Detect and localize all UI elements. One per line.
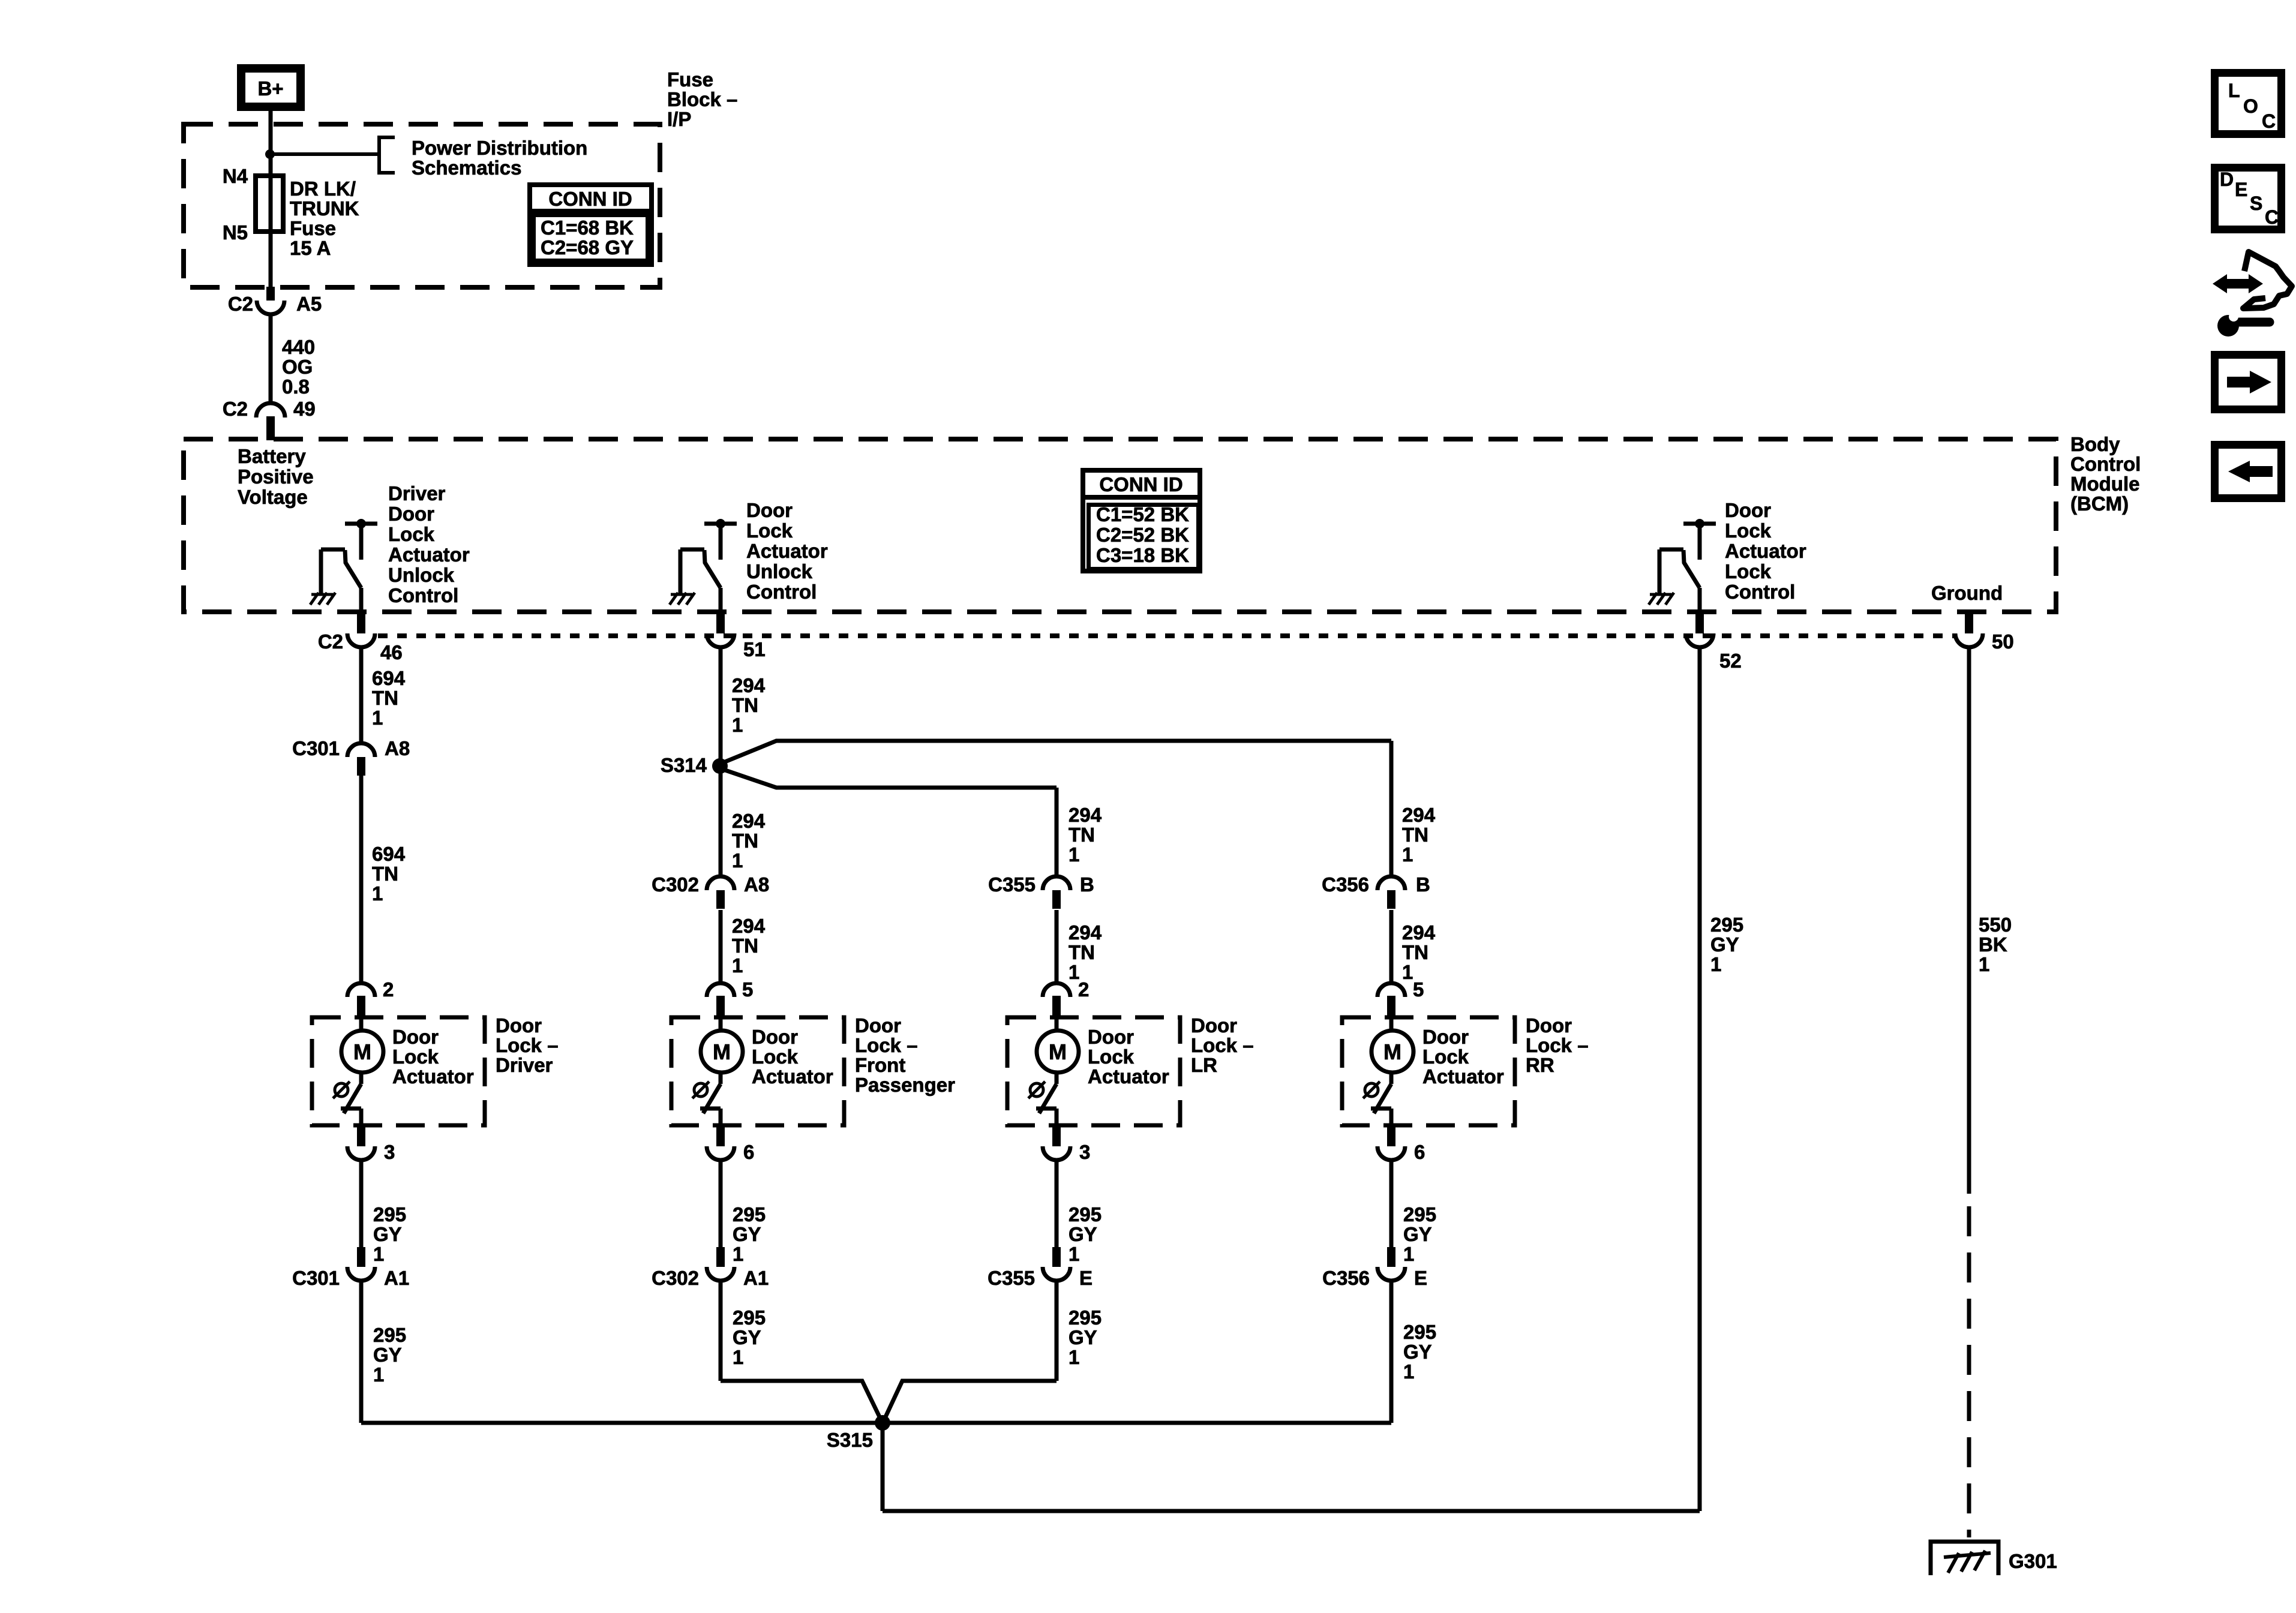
svg-text:(BCM): (BCM) [2070, 492, 2129, 515]
svg-text:Door: Door [746, 499, 793, 521]
svg-text:C302: C302 [652, 1267, 699, 1289]
svg-text:Lock: Lock [388, 523, 435, 545]
svg-text:Door: Door [496, 1014, 542, 1037]
svg-text:Unlock: Unlock [388, 564, 455, 586]
svg-text:GY: GY [1069, 1326, 1097, 1348]
svg-text:295: 295 [733, 1306, 766, 1329]
svg-text:1: 1 [373, 1243, 384, 1265]
svg-text:Lock: Lock [1422, 1046, 1469, 1068]
svg-text:Fuse: Fuse [290, 217, 336, 239]
svg-text:TN: TN [732, 935, 758, 957]
svg-text:S: S [2250, 193, 2262, 214]
svg-text:C1=52 BK: C1=52 BK [1096, 503, 1189, 525]
svg-text:295: 295 [1403, 1321, 1436, 1343]
svg-text:M: M [1049, 1040, 1067, 1064]
svg-text:Actuator: Actuator [1088, 1065, 1169, 1088]
svg-text:Lock: Lock [752, 1046, 799, 1068]
svg-text:Door: Door [388, 503, 434, 525]
svg-text:GY: GY [1069, 1223, 1097, 1245]
svg-text:Front: Front [855, 1054, 905, 1076]
svg-text:Actuator: Actuator [388, 543, 470, 566]
svg-text:Passenger: Passenger [855, 1074, 955, 1096]
svg-text:C2: C2 [228, 293, 253, 315]
svg-text:LR: LR [1191, 1054, 1217, 1076]
svg-text:GY: GY [1710, 933, 1739, 956]
svg-text:TN: TN [732, 694, 758, 716]
svg-text:C2=68 GY: C2=68 GY [541, 236, 634, 259]
svg-text:OG: OG [282, 356, 313, 378]
svg-text:A1: A1 [743, 1267, 769, 1289]
svg-text:C2=52 BK: C2=52 BK [1096, 524, 1189, 546]
svg-text:1: 1 [1069, 843, 1079, 866]
svg-text:1: 1 [1069, 1243, 1079, 1265]
svg-text:DR LK/: DR LK/ [290, 178, 356, 200]
svg-text:G301: G301 [2009, 1550, 2057, 1572]
svg-text:0.8: 0.8 [282, 376, 310, 398]
svg-text:6: 6 [743, 1141, 754, 1163]
svg-text:1: 1 [1069, 1346, 1079, 1368]
svg-text:Actuator: Actuator [1422, 1065, 1504, 1088]
svg-text:L: L [2228, 80, 2240, 101]
svg-text:C301: C301 [292, 1267, 340, 1289]
svg-text:C301: C301 [292, 737, 340, 759]
svg-text:M: M [713, 1040, 731, 1064]
svg-text:N4: N4 [223, 165, 248, 187]
svg-text:52: 52 [1719, 650, 1742, 672]
svg-text:Battery: Battery [238, 445, 306, 467]
svg-text:Actuator: Actuator [392, 1065, 474, 1088]
svg-text:TRUNK: TRUNK [290, 197, 359, 220]
svg-text:A1: A1 [384, 1267, 409, 1289]
svg-text:Door: Door [752, 1026, 798, 1048]
svg-text:295: 295 [1069, 1203, 1102, 1225]
svg-text:E: E [2235, 179, 2247, 200]
svg-text:O: O [2243, 95, 2258, 117]
svg-text:GY: GY [1403, 1223, 1432, 1245]
svg-text:694: 694 [372, 667, 406, 689]
svg-text:Control: Control [746, 581, 817, 603]
svg-text:C302: C302 [652, 873, 699, 896]
svg-text:Lock –: Lock – [1191, 1034, 1254, 1056]
svg-text:1: 1 [732, 954, 743, 977]
svg-text:294: 294 [732, 810, 766, 832]
svg-text:Actuator: Actuator [746, 540, 828, 562]
svg-text:Lock: Lock [1725, 560, 1772, 582]
svg-text:TN: TN [1402, 824, 1428, 846]
svg-text:GY: GY [373, 1223, 402, 1245]
svg-text:294: 294 [732, 674, 766, 696]
svg-text:BK: BK [1979, 933, 2007, 956]
svg-text:1: 1 [1403, 1360, 1414, 1383]
svg-text:S315: S315 [827, 1429, 873, 1451]
svg-text:294: 294 [1402, 804, 1436, 826]
svg-text:Door: Door [1725, 499, 1771, 521]
svg-text:A5: A5 [296, 293, 322, 315]
svg-text:Lock: Lock [1725, 519, 1772, 542]
svg-text:1: 1 [733, 1346, 743, 1368]
svg-text:TN: TN [372, 863, 398, 885]
svg-text:2: 2 [383, 978, 394, 1001]
svg-text:1: 1 [372, 707, 383, 729]
svg-text:295: 295 [733, 1203, 766, 1225]
svg-text:1: 1 [1979, 953, 1989, 975]
svg-text:295: 295 [1710, 914, 1743, 936]
svg-text:295: 295 [373, 1203, 406, 1225]
svg-text:Power Distribution: Power Distribution [412, 137, 587, 159]
svg-text:Lock –: Lock – [1526, 1034, 1589, 1056]
svg-text:1: 1 [1403, 1243, 1414, 1265]
svg-text:Schematics: Schematics [412, 157, 521, 179]
svg-text:TN: TN [1069, 824, 1095, 846]
svg-text:295: 295 [1069, 1306, 1102, 1329]
svg-text:Lock –: Lock – [855, 1034, 918, 1056]
svg-text:Ground: Ground [1931, 582, 2003, 604]
svg-text:C: C [2265, 206, 2279, 228]
svg-text:Unlock: Unlock [746, 560, 813, 582]
svg-text:Lock: Lock [1088, 1046, 1135, 1068]
svg-text:51: 51 [743, 638, 766, 660]
svg-text:GY: GY [733, 1326, 761, 1348]
svg-text:TN: TN [732, 830, 758, 852]
svg-text:C2: C2 [223, 398, 248, 420]
svg-text:B: B [1416, 873, 1430, 896]
svg-text:1: 1 [1710, 953, 1721, 975]
svg-text:Lock: Lock [392, 1046, 439, 1068]
svg-text:C1=68 BK: C1=68 BK [541, 217, 634, 239]
svg-text:S314: S314 [661, 754, 707, 776]
svg-text:694: 694 [372, 843, 406, 865]
svg-text:1: 1 [732, 714, 743, 736]
svg-text:1: 1 [373, 1363, 384, 1386]
svg-text:3: 3 [1079, 1141, 1090, 1163]
svg-text:I/P: I/P [667, 108, 691, 130]
svg-text:Control: Control [2070, 453, 2141, 475]
svg-text:C356: C356 [1322, 873, 1369, 896]
svg-text:C3=18 BK: C3=18 BK [1096, 544, 1189, 566]
svg-text:Voltage: Voltage [238, 486, 308, 508]
svg-text:15 A: 15 A [290, 237, 331, 259]
svg-text:Lock: Lock [746, 519, 793, 542]
svg-text:1: 1 [1402, 961, 1413, 983]
svg-text:Body: Body [2070, 433, 2120, 455]
svg-text:Actuator: Actuator [752, 1065, 833, 1088]
svg-text:A8: A8 [744, 873, 769, 896]
svg-text:5: 5 [742, 978, 753, 1001]
svg-text:C355: C355 [988, 1267, 1035, 1289]
svg-text:M: M [353, 1040, 371, 1064]
svg-text:TN: TN [372, 687, 398, 709]
svg-text:D: D [2220, 169, 2234, 190]
svg-text:E: E [1079, 1267, 1093, 1289]
svg-text:TN: TN [1402, 941, 1428, 963]
svg-text:GY: GY [1403, 1341, 1432, 1363]
svg-text:1: 1 [1402, 843, 1413, 866]
svg-text:Door: Door [1422, 1026, 1469, 1048]
svg-text:Control: Control [1725, 581, 1795, 603]
svg-text:3: 3 [384, 1141, 395, 1163]
svg-text:Module: Module [2070, 473, 2139, 495]
svg-text:440: 440 [282, 336, 315, 358]
svg-text:GY: GY [733, 1223, 761, 1245]
svg-text:C356: C356 [1322, 1267, 1370, 1289]
svg-text:5: 5 [1413, 978, 1424, 1001]
svg-text:E: E [1414, 1267, 1427, 1289]
svg-text:Block –: Block – [667, 88, 737, 110]
svg-text:A8: A8 [385, 737, 410, 759]
svg-text:294: 294 [1069, 804, 1102, 826]
svg-text:RR: RR [1526, 1054, 1554, 1076]
svg-text:46: 46 [380, 641, 403, 663]
svg-text:550: 550 [1979, 914, 2012, 936]
svg-text:M: M [1383, 1040, 1401, 1064]
svg-text:1: 1 [732, 849, 743, 872]
svg-text:Lock –: Lock – [496, 1034, 559, 1056]
svg-text:295: 295 [373, 1324, 406, 1346]
svg-text:Door: Door [855, 1014, 901, 1037]
svg-text:50: 50 [1992, 630, 2014, 653]
svg-text:Actuator: Actuator [1725, 540, 1806, 562]
svg-text:295: 295 [1403, 1203, 1436, 1225]
svg-text:Positive: Positive [238, 465, 314, 488]
svg-text:C355: C355 [988, 873, 1036, 896]
svg-text:B: B [1080, 873, 1094, 896]
svg-text:Door: Door [1088, 1026, 1134, 1048]
svg-text:Driver: Driver [388, 482, 446, 504]
svg-text:Door: Door [1191, 1014, 1237, 1037]
svg-text:Door: Door [1526, 1014, 1572, 1037]
svg-text:6: 6 [1414, 1141, 1425, 1163]
svg-text:C2: C2 [318, 630, 343, 653]
svg-text:1: 1 [733, 1243, 743, 1265]
svg-text:294: 294 [1069, 921, 1102, 944]
svg-text:1: 1 [372, 882, 383, 905]
svg-text:Door: Door [392, 1026, 439, 1048]
svg-text:294: 294 [1402, 921, 1436, 944]
svg-text:GY: GY [373, 1344, 402, 1366]
svg-text:CONN ID: CONN ID [1099, 473, 1182, 495]
svg-text:C: C [2262, 110, 2276, 132]
svg-text:TN: TN [1069, 941, 1095, 963]
svg-text:Fuse: Fuse [667, 68, 713, 91]
svg-text:49: 49 [293, 398, 316, 420]
svg-text:Driver: Driver [496, 1054, 553, 1076]
svg-text:B+: B+ [257, 77, 283, 100]
svg-text:294: 294 [732, 915, 766, 937]
svg-text:2: 2 [1078, 978, 1089, 1001]
svg-text:Control: Control [388, 584, 458, 606]
svg-text:CONN ID: CONN ID [548, 188, 632, 210]
svg-text:N5: N5 [223, 221, 248, 244]
